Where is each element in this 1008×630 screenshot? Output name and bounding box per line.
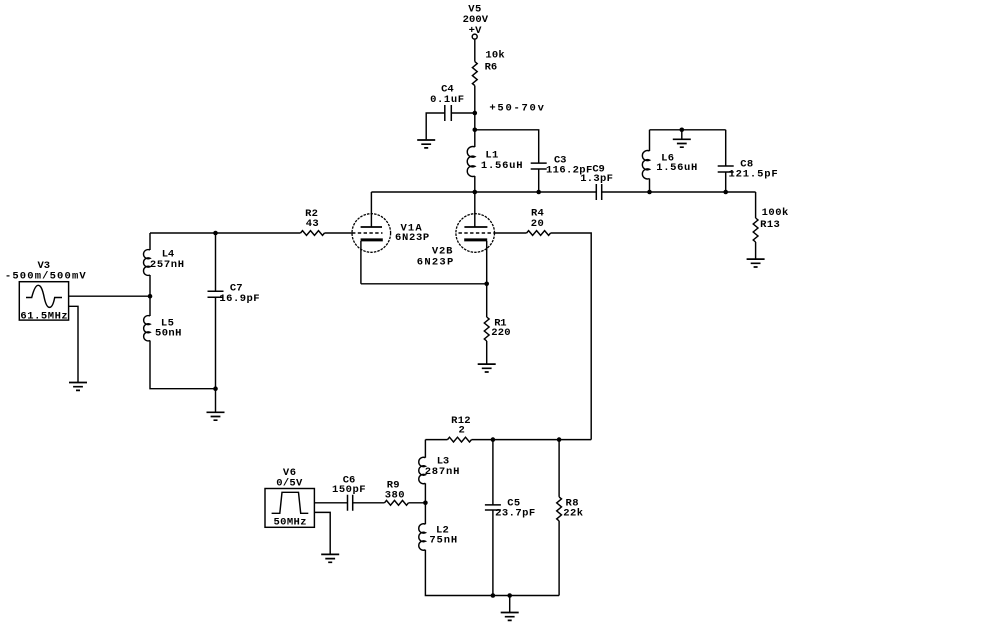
wire L2 to bottom rail <box>425 550 559 596</box>
V1A grid (dashed) <box>352 232 383 234</box>
node plate rail / C3 <box>536 190 541 195</box>
wire bottom ground stem <box>509 596 511 613</box>
node C7 top <box>213 231 218 236</box>
source V3 sine <box>5 260 87 323</box>
svg-text:100k: 100k <box>762 207 789 219</box>
ground at V6 <box>321 554 339 562</box>
inductor L4 257nH <box>144 249 185 276</box>
wire C4 to ground corner <box>426 113 445 139</box>
svg-text:1.56uH: 1.56uH <box>481 160 523 172</box>
svg-text:75nH: 75nH <box>429 534 458 546</box>
node C5 top <box>491 437 496 442</box>
capacitor C5 23.7pF <box>485 498 536 520</box>
node ground tap bottom <box>507 593 512 598</box>
wire L1 to plate rail <box>474 176 476 192</box>
node L6 bottom <box>647 190 652 195</box>
svg-text:R6: R6 <box>485 62 498 74</box>
wire V6 output to C6 <box>314 502 347 504</box>
capacitor C3 116.2pF <box>531 154 593 176</box>
node C7 bottom <box>213 386 218 391</box>
svg-text:50nH: 50nH <box>155 328 182 340</box>
wire C6 to R9 <box>353 502 385 504</box>
svg-text:50MHz: 50MHz <box>274 517 307 529</box>
ground at V3 <box>69 383 87 391</box>
wire node to L2 <box>424 503 426 524</box>
svg-text:0.1uF: 0.1uF <box>430 94 465 106</box>
wire C8 column <box>725 130 727 192</box>
svg-text:150pF: 150pF <box>332 484 366 496</box>
wire plate rail (anode bus) <box>371 191 755 193</box>
wire R2 to V1A grid <box>325 232 352 234</box>
wire R12 to corner <box>472 439 592 441</box>
svg-text:2: 2 <box>459 425 465 437</box>
resistor R4 20 <box>527 208 551 236</box>
node cathodes/R1 <box>484 282 489 287</box>
capacitor C9 1.3pF <box>580 163 613 200</box>
wire L3 corner to R12 <box>425 439 447 441</box>
wire rail to L4 <box>149 233 151 250</box>
V2B cathode bar <box>464 238 487 241</box>
wire node to C3 top corner <box>475 130 539 163</box>
ground at bottom rail <box>501 613 519 621</box>
triode V1A 6N23P envelope <box>352 214 391 253</box>
wire R8 leads <box>558 440 560 596</box>
ground at C7 <box>207 412 225 420</box>
wire C7 column <box>215 233 217 389</box>
ground at R1 <box>478 364 496 372</box>
svg-text:23.7pF: 23.7pF <box>495 507 536 519</box>
svg-text:380: 380 <box>385 489 405 501</box>
wire R9 to node <box>409 502 426 504</box>
svg-text:10k: 10k <box>485 50 504 62</box>
wire V2B plate lead <box>474 192 476 227</box>
node R8 top <box>557 437 562 442</box>
capacitor C7 16.9pF <box>208 283 261 305</box>
resistor R8 22k <box>557 497 584 521</box>
wire V2B grid to R4 <box>495 232 527 234</box>
wire V3 output <box>69 295 150 297</box>
resistor R13 100k <box>753 207 789 242</box>
svg-text:16.9pF: 16.9pF <box>219 293 260 305</box>
resistor R6 10k <box>472 50 504 86</box>
ground at top-right rail <box>673 139 691 147</box>
capacitor C4 0.1uF <box>430 84 465 121</box>
V2B grid (dashed) <box>459 232 495 234</box>
wire grid rail left <box>150 232 301 234</box>
svg-text:257nH: 257nH <box>150 259 185 271</box>
svg-text:6N23P: 6N23P <box>395 232 430 244</box>
wire C4 to node <box>451 112 475 114</box>
resistor R12 2 <box>448 415 472 442</box>
svg-text:20: 20 <box>531 218 545 230</box>
svg-text:61.5MHz: 61.5MHz <box>20 310 68 322</box>
svg-text:1.3pF: 1.3pF <box>580 173 613 185</box>
wire node to L1 <box>474 130 476 147</box>
wire V1A plate lead <box>370 192 372 227</box>
wire ground stem <box>681 130 683 139</box>
svg-text:R13: R13 <box>760 219 780 231</box>
svg-text:+V: +V <box>469 25 483 37</box>
svg-text:1.56uH: 1.56uH <box>656 162 698 174</box>
svg-text:-500m/500mV: -500m/500mV <box>5 271 87 283</box>
inductor L3 287nH <box>419 456 460 484</box>
svg-text:22k: 22k <box>563 507 583 519</box>
wire V3 return to ground <box>69 306 78 382</box>
wire C5 column <box>492 440 494 596</box>
source V6 pulse <box>265 467 314 529</box>
svg-text:287nH: 287nH <box>425 466 461 478</box>
wire V2B cathode lead <box>486 241 488 284</box>
node junction C4 <box>473 111 478 116</box>
node junction L1/C3 top <box>473 128 478 133</box>
capacitor C6 150pF <box>332 474 366 511</box>
wire node to R1 <box>486 284 488 317</box>
wire top-right rail <box>650 129 726 131</box>
ground at C4 <box>417 140 435 148</box>
node R9/L3/L2 <box>423 501 428 506</box>
wire R4 to R12 rail corner <box>551 233 592 440</box>
wire V5 to R6 <box>474 40 476 62</box>
inductor L2 75nH <box>419 524 458 550</box>
svg-text:43: 43 <box>306 218 319 230</box>
node C5 bottom <box>491 593 496 598</box>
wire L6 to plate rail <box>649 179 651 193</box>
svg-text:6N23P: 6N23P <box>417 256 455 268</box>
wire R6 to node +50-70v <box>474 86 476 130</box>
resistor R1 220 <box>484 317 510 341</box>
inductor L1 1.56uH <box>467 147 523 177</box>
svg-text:0/5V: 0/5V <box>276 477 303 489</box>
node V3/L4/L5 junction <box>148 294 153 299</box>
wire V6 return to ground <box>314 512 330 554</box>
capacitor C8 121.5pF <box>718 159 779 181</box>
wire L5 to bottom corner <box>150 341 216 389</box>
wire node to L5 <box>149 296 151 316</box>
inductor L6 1.56uH <box>642 151 698 179</box>
wire rail to L6 <box>649 130 651 151</box>
ground at R13 <box>747 259 765 267</box>
triode V2B 6N23P envelope <box>456 214 495 253</box>
V2B plate bar <box>464 226 487 228</box>
inductor L5 50nH <box>144 316 182 341</box>
node plate rail / V2B plate <box>473 190 478 195</box>
wire R13 to ground <box>755 242 757 259</box>
resistor R9 380 <box>385 480 409 506</box>
V1A cathode bar <box>361 238 383 241</box>
wire R1 to ground <box>486 341 488 364</box>
wire L3 to node <box>424 483 426 503</box>
node ground tap top-right <box>680 128 685 133</box>
wire rail corner to R13 <box>755 192 757 218</box>
wire node to ground <box>215 389 217 412</box>
wire C3 to plate rail <box>538 169 540 192</box>
wire R12 rail to L3 <box>424 440 426 458</box>
svg-text:121.5pF: 121.5pF <box>729 168 779 180</box>
wire V1A cathode lead <box>360 241 362 284</box>
wire cathode rail <box>361 283 487 285</box>
node C8 bottom <box>723 190 728 195</box>
power terminal V5 +V <box>463 4 489 39</box>
resistor R2 43 <box>301 208 325 236</box>
svg-text:220: 220 <box>491 327 511 339</box>
V1A plate bar <box>361 226 382 228</box>
wire L4 to node <box>149 275 151 296</box>
svg-text:+50-70v: +50-70v <box>489 103 545 115</box>
